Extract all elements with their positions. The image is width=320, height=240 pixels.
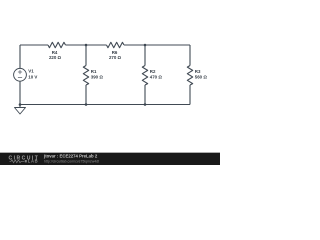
svg-text:560 Ω: 560 Ω bbox=[195, 74, 208, 79]
wire bottom rail bbox=[20, 104, 190, 106]
resistor R4 bbox=[48, 42, 66, 47]
svg-text:390 Ω: 390 Ω bbox=[91, 74, 104, 79]
node junction dot R1 top bbox=[85, 44, 88, 47]
watermark bar bbox=[0, 153, 220, 165]
ground triangle bbox=[15, 108, 26, 115]
node junction dot R2 bottom bbox=[144, 103, 147, 106]
svg-text:10 V: 10 V bbox=[28, 74, 37, 79]
svg-text:220 Ω: 220 Ω bbox=[49, 55, 62, 60]
voltage source V1 circle bbox=[14, 68, 27, 81]
resistor R6 bbox=[107, 42, 125, 47]
svg-text:470 Ω: 470 Ω bbox=[150, 74, 163, 79]
svg-text:270 Ω: 270 Ω bbox=[109, 55, 122, 60]
wire source bottom bbox=[19, 81, 21, 104]
resistor R1 bbox=[83, 66, 88, 86]
wire top rail middle segment bbox=[66, 44, 107, 46]
resistor R2 bbox=[142, 66, 147, 86]
wire R3 bottom to rail bbox=[189, 85, 191, 105]
wire right drop to R3 bbox=[189, 45, 191, 66]
svg-text:LAB: LAB bbox=[28, 159, 39, 164]
V1 minus sign bbox=[18, 77, 22, 79]
wire R2 top bbox=[144, 45, 146, 66]
wire top rail right segment bbox=[124, 44, 190, 46]
V1 plus sign bbox=[18, 71, 22, 73]
svg-text:jtovar : ECE2274 PreLab 2: jtovar : ECE2274 PreLab 2 bbox=[43, 154, 98, 159]
node junction dot R1 bottom bbox=[85, 103, 88, 106]
wire R2 bottom bbox=[144, 85, 146, 105]
resistor R3 bbox=[187, 66, 192, 86]
ground stem bbox=[19, 105, 21, 108]
node junction dot R2 top bbox=[144, 44, 147, 47]
wire R1 bottom bbox=[85, 85, 87, 105]
logo zigzag bbox=[10, 160, 25, 163]
svg-text:http://circuitlab.com/cvs75lqm: http://circuitlab.com/cvs75lqmzw4dt bbox=[44, 160, 99, 164]
wire source top bbox=[19, 45, 21, 68]
wire R1 top bbox=[85, 45, 87, 66]
node junction dot source bottom bbox=[19, 103, 22, 106]
wire top rail left segment bbox=[20, 44, 48, 46]
svg-text:V1: V1 bbox=[28, 69, 34, 74]
logo mark square bbox=[25, 160, 27, 162]
